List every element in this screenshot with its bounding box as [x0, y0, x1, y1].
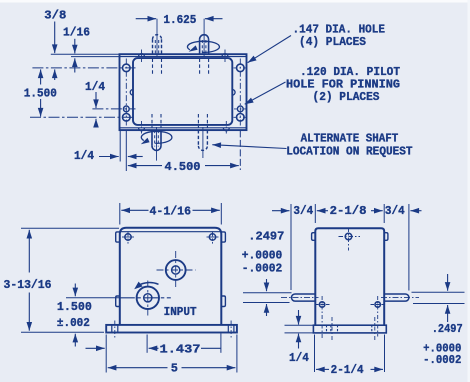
arrow at flange left end	[86, 347, 105, 349]
dimension 3/4 right	[410, 210, 421, 212]
svg-text:-.0002: -.0002	[423, 353, 461, 367]
svg-text:1/4: 1/4	[85, 80, 105, 94]
label 1.437	[160, 342, 201, 356]
hole H4 bottom-right .147	[234, 114, 248, 122]
boss cover left edge	[130, 90, 133, 96]
rotation arrow input	[134, 282, 158, 290]
extension line box right edge below flange	[220, 334, 222, 353]
label +.0000 left	[242, 248, 282, 262]
dimension 1/16	[74, 39, 76, 73]
label .147 DIA. HOLE	[293, 22, 386, 36]
label LOCATION ON REQUEST	[286, 145, 412, 159]
extension line right shaft end up	[408, 204, 410, 291]
label plus-minus .002	[57, 316, 90, 330]
svg-text:5: 5	[171, 362, 178, 376]
dimension 1.625	[136, 18, 223, 20]
top view outer housing rect	[120, 54, 247, 130]
label .2497 left	[248, 229, 284, 243]
dimension 1/4 side view	[298, 310, 300, 349]
dimension 3/4 left	[272, 210, 328, 212]
dimension .2497 left arrows	[266, 279, 268, 316]
label 3/4 right	[385, 204, 405, 218]
svg-text:(4) PLACES: (4) PLACES	[299, 35, 366, 49]
label 1/4 vertical top view	[85, 80, 105, 94]
extension line side box left up	[314, 204, 316, 223]
bottom shaft centerline left	[156, 127, 158, 161]
label 5	[171, 362, 178, 376]
dimension 1.437	[149, 347, 221, 349]
extension lines right shaft diameter	[412, 292, 465, 303]
svg-text:3-13/16: 3-13/16	[4, 278, 52, 292]
extension lines 2-1/4	[315, 335, 385, 373]
pilot pin right side view	[371, 296, 386, 337]
extension lines flange thickness left	[285, 325, 314, 333]
extension line top edge lip	[71, 56, 120, 58]
front view body	[120, 228, 222, 325]
label 3/8	[44, 8, 66, 22]
dimension 2-1/4	[316, 368, 383, 370]
svg-text:.2497: .2497	[248, 229, 284, 243]
svg-text:±.002: ±.002	[57, 316, 90, 330]
label (2) PLACES	[313, 90, 380, 104]
svg-text:4.500: 4.500	[165, 160, 201, 174]
bottom solid input shaft	[152, 130, 161, 150]
extension lines left shaft diameter	[243, 293, 292, 303]
dimension 1.500 top view	[40, 69, 42, 116]
dimension 3/8	[54, 22, 56, 81]
right output shaft side view	[381, 294, 419, 301]
label 4-1/16	[150, 204, 192, 218]
rotation arrow bottom shaft	[141, 131, 172, 144]
dimension 4.500	[128, 165, 239, 167]
svg-text:1/4: 1/4	[289, 351, 309, 365]
label 2-1/4	[331, 363, 364, 377]
top dashed alternate shaft	[153, 35, 162, 55]
ear front mid-right	[221, 296, 225, 307]
ear front top-left	[116, 232, 120, 242]
extension line left hole column down	[125, 130, 127, 171]
svg-text:-.0002: -.0002	[242, 262, 282, 276]
leader .147 dia hole	[248, 36, 291, 63]
label 1/16	[63, 25, 90, 39]
label INPUT	[164, 305, 197, 319]
leader alternate shaft	[212, 145, 286, 149]
dimension 1.500 front view	[74, 284, 76, 347]
hole H1 top-left .147	[123, 59, 131, 127]
extension line flange left end down	[105, 335, 107, 373]
svg-text:4-1/16: 4-1/16	[150, 204, 192, 218]
centerline pilot hole row	[92, 108, 135, 110]
output shaft circles	[157, 251, 196, 289]
label ALTERNATE SHAFT	[301, 131, 399, 145]
ear front top-right	[221, 232, 225, 242]
rotation arrow top shaft	[187, 41, 219, 52]
left output shaft side view	[281, 294, 319, 301]
extension line side box right up	[383, 204, 385, 223]
flange slot right	[228, 321, 234, 338]
extension line right hole column down	[239, 130, 241, 170]
screw bump top edge right	[222, 50, 228, 64]
extension line input centerline left	[66, 297, 120, 299]
hole H3 bottom-left .147	[123, 114, 131, 122]
pilot hole P2 right .120	[234, 106, 247, 112]
label 4.500	[165, 160, 201, 174]
corner screw left	[122, 231, 134, 243]
svg-text:2-1/8: 2-1/8	[330, 204, 367, 218]
dimension 1/4 horizontal bottom of top view	[99, 156, 143, 158]
front view flange	[106, 325, 237, 333]
top shaft centerline left	[156, 19, 158, 57]
side view body	[315, 228, 384, 325]
label +.0000 right	[423, 342, 461, 356]
pilot pin left side view	[315, 296, 330, 339]
svg-text:1/4: 1/4	[74, 149, 94, 163]
extension line flange right end down	[236, 335, 238, 373]
centerline top hole row	[32, 67, 135, 69]
input shaft circles	[120, 281, 171, 316]
svg-text:3/4: 3/4	[293, 204, 313, 218]
extension line box left edge down	[119, 130, 121, 161]
leader .120 pilot hole	[245, 82, 286, 104]
screw bump top edge left	[139, 50, 145, 64]
svg-text:INPUT: INPUT	[164, 305, 197, 319]
svg-text:1.500: 1.500	[57, 300, 92, 314]
label 1.500 top view	[24, 86, 57, 100]
top view cover rounded rect	[133, 58, 232, 125]
label 3/4 left	[293, 204, 313, 218]
extension line top edge outer	[51, 53, 120, 55]
dimension 3-13/16	[28, 230, 30, 331]
centerline bottom hole row	[30, 116, 136, 118]
label HOLE FOR PINNING	[286, 77, 400, 91]
top solid shaft	[200, 35, 209, 55]
dimension 2-1/8 arrows	[371, 210, 383, 212]
svg-text:ALTERNATE SHAFT: ALTERNATE SHAFT	[301, 131, 399, 145]
label 1/4 horizontal	[74, 149, 94, 163]
svg-text:1/16: 1/16	[63, 25, 90, 39]
boss cover right edge	[232, 90, 235, 96]
side top screw	[339, 228, 361, 251]
side view flange	[313, 325, 386, 333]
svg-text:1.625: 1.625	[163, 13, 196, 27]
flange slot dashes left	[327, 317, 338, 340]
corner screw right	[207, 231, 219, 243]
screw bump bottom edge right	[223, 121, 229, 135]
extension line flange bottom left	[21, 331, 104, 333]
label 1/4 side view	[289, 351, 309, 365]
ear front mid-left	[116, 296, 120, 307]
top shaft centerline right	[203, 19, 205, 57]
svg-text:+.0000: +.0000	[242, 248, 282, 262]
svg-text:(2) PLACES: (2) PLACES	[313, 90, 380, 104]
label .2497 right	[432, 322, 463, 336]
svg-text:2-1/4: 2-1/4	[331, 363, 364, 377]
extension line front top left	[21, 227, 119, 229]
hidden bore lines below top shafts	[153, 59, 209, 75]
hole H2 top-right .147	[234, 59, 248, 127]
dimension 1/4 vertical top view	[95, 92, 97, 127]
top view upper lip line	[120, 56, 247, 58]
label 2-1/8	[330, 204, 367, 218]
top view lower lip line	[120, 127, 247, 129]
svg-text:.2497: .2497	[432, 322, 463, 336]
ear side right	[384, 233, 388, 241]
extension line input centerline below flange	[146, 335, 148, 353]
flange slot left	[112, 321, 118, 338]
bottom shaft centerline right	[202, 127, 204, 158]
svg-text:LOCATION ON REQUEST: LOCATION ON REQUEST	[286, 145, 412, 159]
hidden bore lines above bottom shafts	[152, 114, 207, 128]
label 1.625	[163, 13, 196, 27]
dimension 5	[108, 367, 236, 369]
svg-text:3/4: 3/4	[385, 204, 405, 218]
flange slot dashes right	[372, 317, 375, 340]
svg-text:1.437: 1.437	[160, 342, 201, 356]
label 3-13/16	[4, 278, 52, 292]
svg-text:1.500: 1.500	[24, 86, 57, 100]
label (4) PLACES	[299, 35, 366, 49]
label 1.500 front view	[57, 300, 92, 314]
bottom dashed alternate shaft	[198, 130, 207, 150]
pilot hole P1 left .120	[123, 106, 129, 112]
screw bump bottom edge left	[139, 121, 145, 135]
extension line left shaft end up	[290, 204, 292, 290]
svg-text:3/8: 3/8	[44, 8, 66, 22]
label -.0002 left	[242, 262, 282, 276]
label .120 DIA. PILOT	[300, 65, 400, 79]
ear side left	[312, 233, 316, 241]
dimension .2497 right arrows	[447, 274, 449, 322]
dimension 4-1/16	[120, 203, 222, 225]
label -.0002 right	[423, 353, 461, 367]
